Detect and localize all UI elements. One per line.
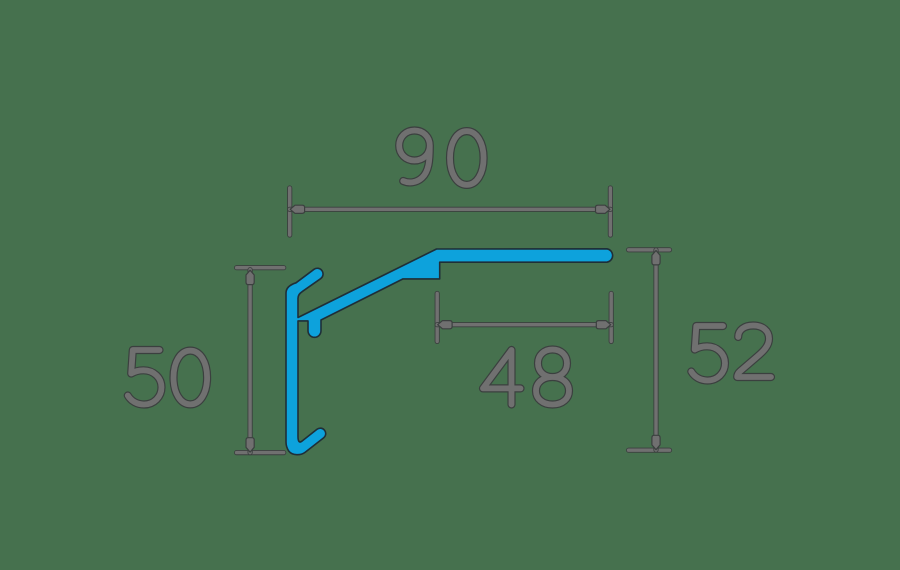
- dimension 52: extension tick top: [629, 247, 670, 252]
- dimension 48: extension tick right: [609, 294, 614, 342]
- dimension 50: extension tick bottom: [237, 450, 284, 455]
- dimension 90: label digit 0: [450, 131, 484, 185]
- dimension 90: extension tick right: [608, 188, 613, 235]
- dimension 50: label digit 5: [128, 350, 162, 405]
- dimension 48: extension tick left: [435, 294, 440, 342]
- dimension 90: label digit 9: [399, 131, 430, 183]
- dimension 52: arrow up: [652, 251, 660, 265]
- dimension 90: dimension line: [290, 207, 611, 212]
- dimension 52: extension tick bottom: [629, 448, 670, 453]
- dimension 52: label digit 2: [737, 326, 771, 378]
- dimension 48: label digit 4: [483, 350, 521, 405]
- dimension 90: arrow left: [290, 205, 304, 213]
- dimension 52: label digit 5: [691, 326, 725, 381]
- dimension 48: label digit 8: [536, 350, 569, 405]
- dimension 90: arrow right: [596, 205, 610, 213]
- dimension 48: dimension line: [437, 322, 611, 327]
- dimension 50: label digit 0: [174, 351, 208, 405]
- dimension 90: extension tick left: [287, 188, 292, 235]
- dimension 48: arrow left: [438, 321, 452, 329]
- dimension 50: arrow down: [246, 438, 254, 452]
- dimension 50: arrow up: [246, 270, 254, 284]
- dimension 52: dimension line: [653, 250, 658, 450]
- dimension 50: extension tick top: [237, 265, 284, 270]
- profile body (blue aluminium roof edge profile cross-section): [286, 249, 613, 455]
- dimension 48: arrow right: [596, 321, 610, 329]
- dimension 52: arrow down: [652, 435, 660, 449]
- dimension 50: dimension line: [248, 270, 253, 453]
